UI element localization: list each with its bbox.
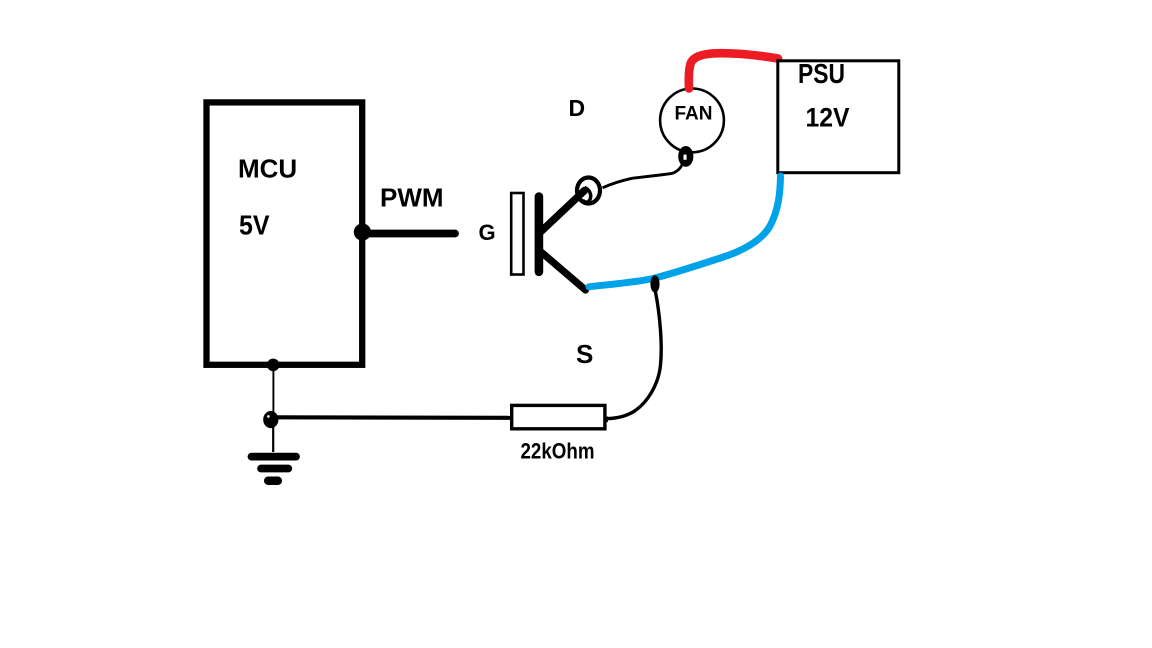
wire ground rail to resistor: [274, 415, 512, 420]
MOSFET Q1 body bar: [535, 197, 544, 272]
node ground junction blob: [263, 411, 278, 428]
node junction dot on blue wire: [650, 275, 659, 292]
node PWM junction dot on MCU right edge: [354, 224, 371, 241]
wire red 12V from fan to PSU: [689, 53, 778, 88]
svg-text:D: D: [569, 95, 586, 121]
MCU box U1: [207, 102, 363, 364]
svg-text:S: S: [576, 339, 593, 369]
ground symbol bar 2: [261, 465, 288, 473]
fan M1 circle: [660, 89, 724, 153]
wire blue from PSU to source: [589, 176, 781, 287]
svg-text:MCU: MCU: [238, 154, 297, 184]
fan terminal loop: [678, 146, 693, 167]
svg-text:5V: 5V: [239, 210, 270, 241]
ground symbol bar 3: [268, 477, 278, 486]
wire PWM from MCU to gate: [362, 230, 455, 238]
svg-text:FAN: FAN: [675, 103, 713, 124]
svg-text:12V: 12V: [806, 103, 850, 133]
wire MCU bottom to ground junction: [272, 365, 274, 413]
drain terminal loop: [577, 178, 600, 204]
node dot on MCU bottom edge: [267, 359, 280, 372]
MOSFET Q1 gate plate: [511, 193, 523, 275]
ground symbol bar 1: [252, 453, 297, 461]
MOSFET Q1 drain lead: [541, 191, 585, 232]
svg-text:PWM: PWM: [380, 183, 444, 213]
PSU box: [778, 61, 899, 173]
wire junction to ground symbol: [272, 426, 274, 452]
svg-text:G: G: [479, 220, 496, 245]
svg-text:22kOhm: 22kOhm: [521, 439, 595, 464]
svg-text:PSU: PSU: [798, 58, 845, 89]
resistor R1: [512, 405, 605, 428]
wire drain to fan: [603, 165, 683, 188]
MOSFET Q1 source lead: [541, 252, 586, 291]
wire source junction to resistor: [607, 292, 662, 419]
